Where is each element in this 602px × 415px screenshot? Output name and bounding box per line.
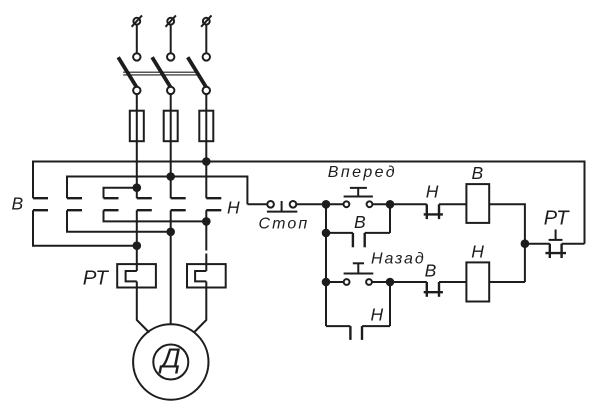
node 2 xyxy=(386,200,395,209)
contact H1 lower plate xyxy=(137,209,152,211)
wire coil H to PT node xyxy=(489,281,525,283)
svg-text:В: В xyxy=(12,194,24,214)
coil H xyxy=(466,262,489,301)
node output C xyxy=(202,217,211,226)
supply terminal L2 xyxy=(166,15,176,26)
wire second bus xyxy=(67,177,247,205)
knife switch pole 1 xyxy=(118,53,140,94)
node 1 vertical branch xyxy=(325,204,327,326)
node PT xyxy=(521,239,530,248)
svg-text:РТ: РТ xyxy=(83,266,110,289)
wire contact1 to output A xyxy=(33,210,137,246)
contact H2 upper plate xyxy=(171,197,186,199)
wire output C vertical xyxy=(205,210,207,264)
wire contact3 to output C xyxy=(104,210,207,221)
svg-text:Н: Н xyxy=(471,241,484,261)
wire phase 1 vertical xyxy=(136,111,138,199)
stop button contacts xyxy=(247,201,322,212)
aux contact B self-hold xyxy=(326,204,390,247)
svg-text:Н: Н xyxy=(371,305,384,325)
contact B2 lower plate xyxy=(67,209,82,211)
node 5 xyxy=(386,278,395,287)
thermal relay heater PT2 xyxy=(187,264,226,287)
contact B2 upper plate xyxy=(67,197,82,199)
contact B3 lower plate xyxy=(104,209,119,211)
forward button contacts xyxy=(326,188,390,207)
wire to coil H xyxy=(439,281,466,283)
wire L3 terminal to switch xyxy=(205,25,207,54)
svg-text:Н: Н xyxy=(227,197,240,217)
wire node5 to B interlock xyxy=(390,281,427,283)
wire L1 terminal to switch xyxy=(136,25,138,54)
supply terminal L3 xyxy=(201,15,211,26)
backward button contacts xyxy=(326,263,390,285)
supply terminal L1 xyxy=(132,15,142,26)
switch linkage bar xyxy=(123,72,197,75)
fuse F2 xyxy=(164,111,178,142)
wire to coil B xyxy=(439,203,466,205)
motor D xyxy=(133,324,208,399)
wire switch to fuse 1 xyxy=(136,94,138,111)
wire switch to fuse 2 xyxy=(170,94,172,111)
aux contact H self-hold xyxy=(326,282,390,340)
wire motor lead C xyxy=(194,288,206,333)
node 3 xyxy=(322,229,331,238)
wire contact2 to output B xyxy=(67,210,171,232)
thermal relay heater PT1 xyxy=(117,264,156,287)
wire switch to fuse 3 xyxy=(205,94,207,111)
node 4 xyxy=(322,278,331,287)
svg-text:В: В xyxy=(472,163,484,183)
node phase2 second bus xyxy=(166,172,175,181)
svg-text:В: В xyxy=(354,212,366,232)
wire motor lead A xyxy=(137,288,149,333)
contact H1 upper plate xyxy=(137,197,152,199)
wire L2 terminal to switch xyxy=(170,25,172,54)
node output A xyxy=(133,241,142,250)
node phase3 top bus xyxy=(202,157,211,166)
wire output B vertical xyxy=(170,210,172,324)
node 1 xyxy=(322,200,331,209)
interlock contact H (NC) xyxy=(424,204,443,219)
wire coil B to PT node xyxy=(489,204,525,282)
wire phase 2 vertical xyxy=(170,111,172,199)
contact H3 lower plate xyxy=(206,209,221,211)
contact B1 lower plate xyxy=(33,209,48,211)
wire node2 to H interlock xyxy=(390,203,427,205)
svg-text:Стоп: Стоп xyxy=(259,216,310,233)
svg-text:Д: Д xyxy=(158,343,181,374)
node phase1 feed xyxy=(133,183,142,192)
coil B xyxy=(466,184,489,223)
contact H3 upper plate xyxy=(206,197,221,199)
svg-text:Назад: Назад xyxy=(371,251,426,268)
knife switch pole 2 xyxy=(152,53,174,94)
node output B xyxy=(166,228,175,237)
fuse F1 xyxy=(130,111,144,142)
wire phase 3 vertical xyxy=(205,111,207,199)
contact B1 upper plate xyxy=(33,197,48,199)
svg-text:Вперед: Вперед xyxy=(328,164,397,181)
contact B3 upper plate xyxy=(104,197,119,199)
fuse F3 xyxy=(199,111,213,142)
wire phase1 feed line xyxy=(104,188,137,199)
svg-text:В: В xyxy=(425,261,437,281)
wire top bus xyxy=(33,162,585,244)
thermal relay contact PT (NC) xyxy=(525,230,585,259)
interlock contact B (NC) xyxy=(424,282,443,297)
svg-text:Н: Н xyxy=(426,182,439,202)
wire output A vertical xyxy=(136,210,138,264)
knife switch pole 3 xyxy=(188,53,210,94)
svg-text:РТ: РТ xyxy=(544,207,570,229)
contact H2 lower plate xyxy=(171,209,186,211)
